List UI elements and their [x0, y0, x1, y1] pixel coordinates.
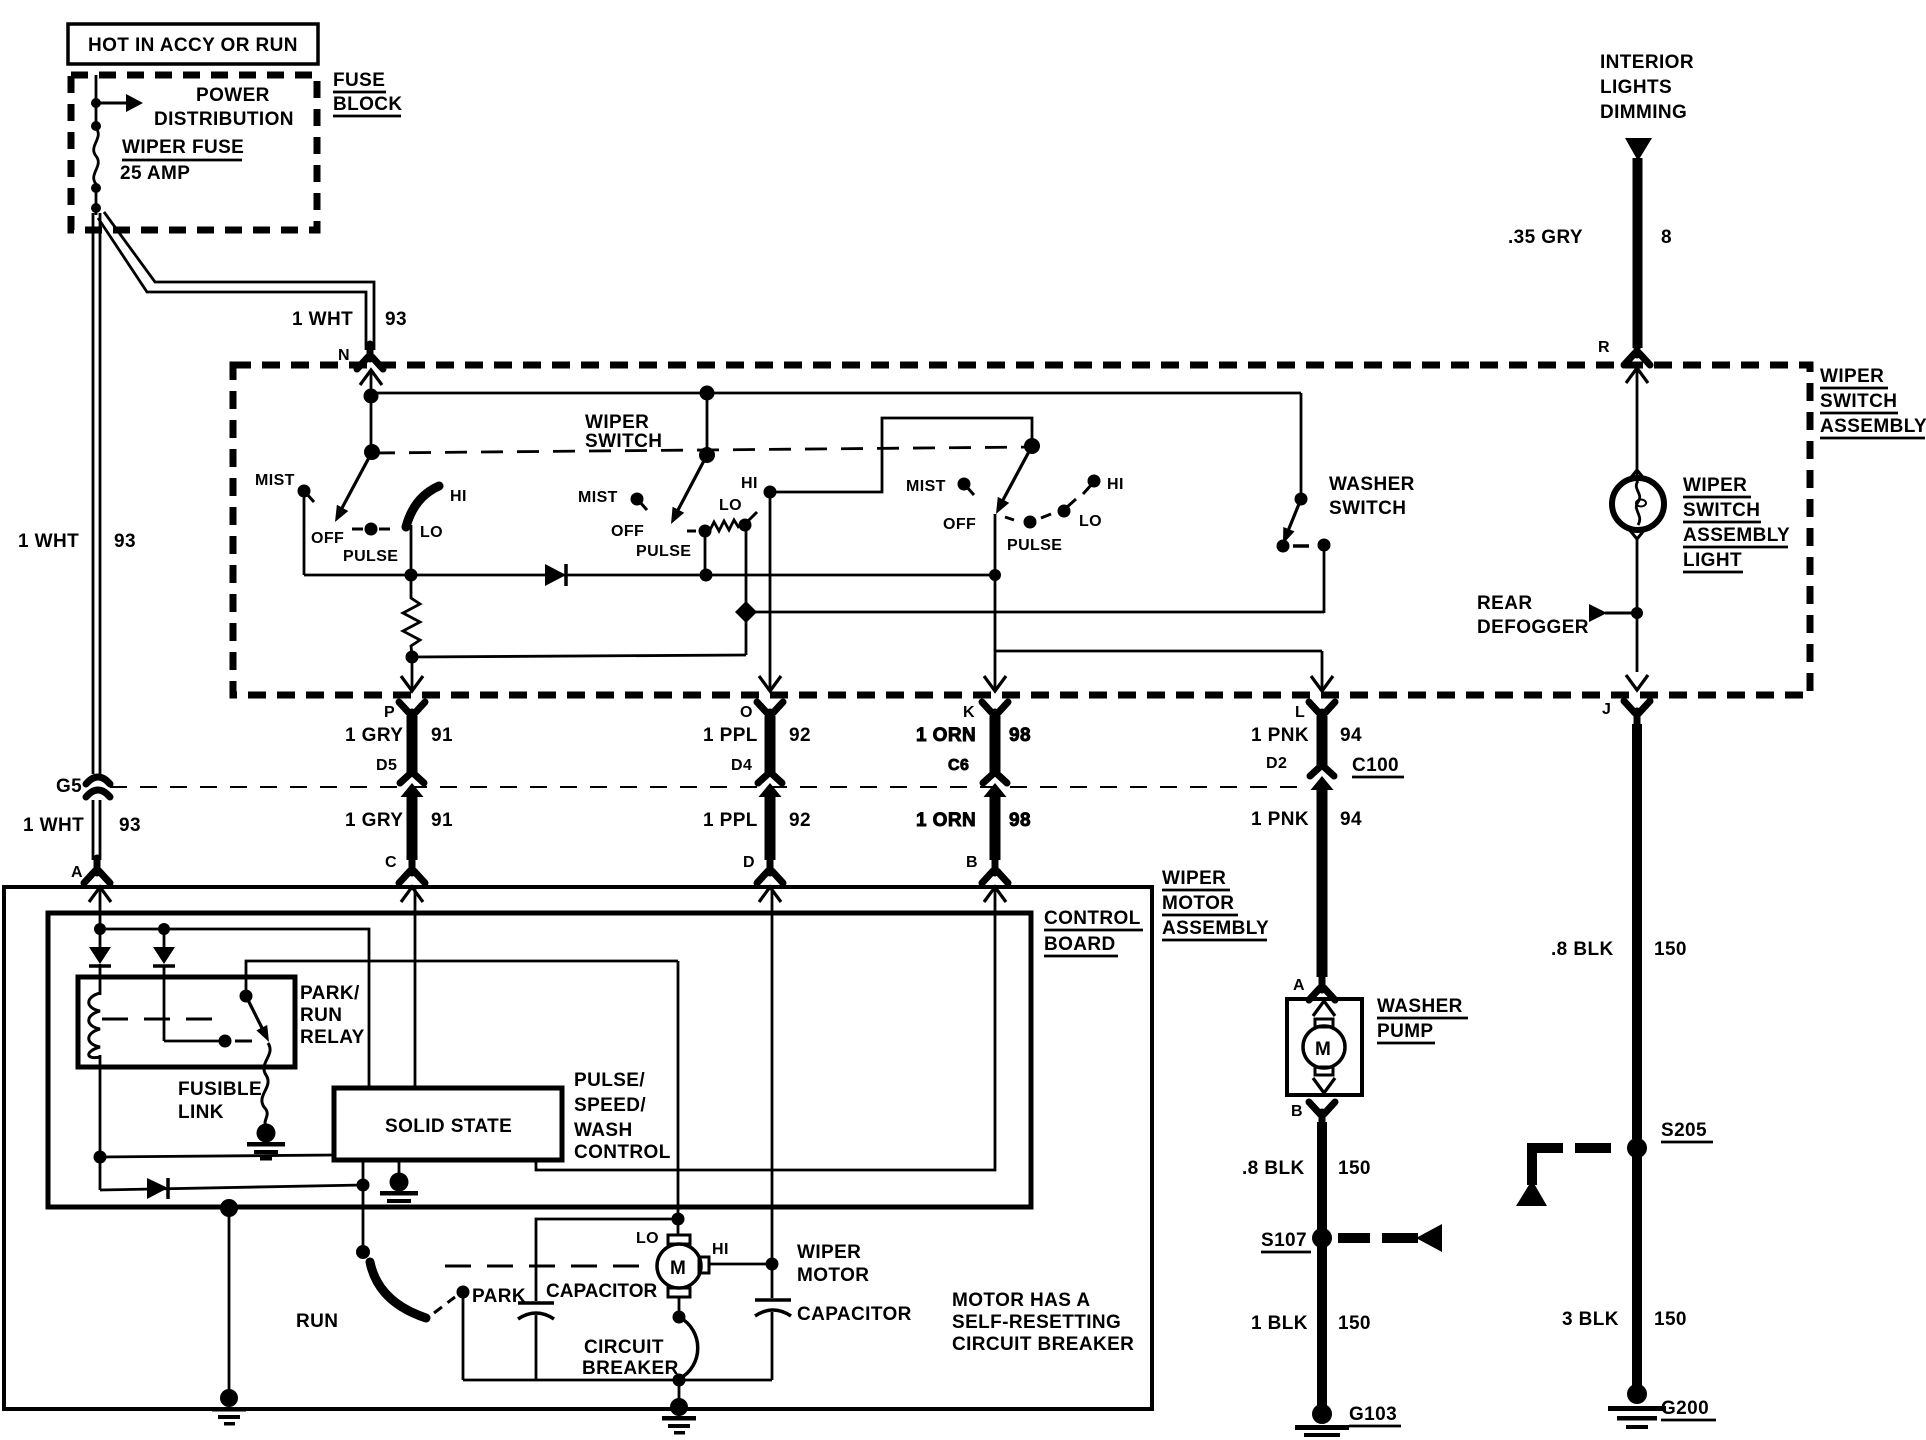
svg-text:RUN: RUN [296, 1311, 338, 1332]
mechanical dashed link park switch to motor [445, 1265, 655, 1268]
node A lower branch [94, 1151, 107, 1164]
label WIPER SWITCH ASSEMBLY (right) [1820, 366, 1926, 438]
node LO cap top join [672, 1213, 685, 1226]
wire label .8 BLK / 150 [1551, 939, 1687, 960]
wire 1 WHT 93 branch to N (double line: diagonal, horizontal, down to N) [98, 212, 374, 350]
wire label 1 PNK / 94 lower [1251, 809, 1362, 830]
contact tail LO 2 [747, 512, 757, 522]
svg-text:1 ORN: 1 ORN [916, 810, 976, 831]
label WIPER SWITCH ASSEMBLY LIGHT [1683, 475, 1790, 572]
open arrow up below N [360, 370, 382, 385]
svg-text:CAPACITOR: CAPACITOR [546, 1281, 657, 1302]
node [91, 203, 101, 213]
wire LO1 down to pulse net [410, 525, 413, 575]
contact tail MIST 3 [966, 486, 974, 495]
svg-text:93: 93 [114, 531, 136, 552]
node diamond junction [735, 601, 757, 623]
wire 1 PPL 92 lower (thick) [765, 794, 776, 860]
node [700, 569, 713, 582]
wire top bus inside switch box [371, 392, 1301, 395]
svg-text:WASHER: WASHER [1329, 474, 1415, 495]
wire A branch to relay contact riser [100, 929, 369, 1088]
fuse block dashed box [71, 75, 317, 230]
wire bus to washer switch (down) [1300, 393, 1303, 498]
svg-text:BREAKER: BREAKER [582, 1358, 679, 1379]
ground under solid state [380, 1173, 418, 1210]
svg-text:CIRCUIT BREAKER: CIRCUIT BREAKER [952, 1334, 1134, 1355]
open arrow up at A entry [89, 887, 111, 902]
wire label 1 PNK / 94 [1251, 725, 1362, 746]
svg-text:1 BLK: 1 BLK [1251, 1313, 1308, 1334]
diode CR2 (A to relay coil) [89, 947, 111, 966]
wire run switch riser [362, 1160, 365, 1252]
wire B into board, to solid state [536, 887, 995, 1170]
svg-text:INTERIOR: INTERIOR [1600, 52, 1694, 73]
node [91, 121, 101, 131]
node bottom return at motor [673, 1374, 686, 1387]
svg-text:1 GRY: 1 GRY [345, 725, 403, 746]
svg-text:25 AMP: 25 AMP [120, 163, 190, 184]
contact HI 3 [1088, 475, 1101, 488]
dash OFF3 to PULSE3 [1005, 517, 1014, 520]
wire 1 GRY 91 lower (thick) [407, 794, 418, 860]
svg-text:C6: C6 [948, 757, 969, 774]
chevron below lamp [1628, 528, 1646, 539]
wire 1 WHT 93 left trunk (double line down to A) [93, 213, 100, 860]
wire 1 ORN 98 lower (thick) [990, 794, 1001, 860]
svg-text:OFF: OFF [311, 530, 344, 547]
svg-text:PARK/: PARK/ [300, 983, 360, 1004]
wire label .8 BLK / 150 [1242, 1158, 1371, 1179]
label MOTOR HAS A SELF-RESETTING CIRCUIT BREAKER [952, 1290, 1134, 1355]
node motor ground brush [678, 1297, 681, 1317]
open arrow up inside pump box [1313, 1001, 1335, 1016]
svg-text:LO: LO [719, 497, 742, 514]
connector P [399, 702, 425, 727]
svg-text:150: 150 [1654, 939, 1687, 960]
wire motor ground drop [678, 1380, 681, 1407]
svg-text:A: A [71, 864, 83, 881]
wire feed stub inside fuse box [95, 75, 98, 128]
label G103 [1349, 1404, 1401, 1426]
ground motor (on box edge) [662, 1416, 696, 1435]
svg-text:M: M [670, 1258, 686, 1279]
wire R down to lamp [1636, 368, 1639, 477]
wire HI2 over to wafer 3 pivot [770, 418, 1032, 492]
node bus at switch 2 [700, 386, 715, 401]
label WASHER PUMP [1377, 996, 1468, 1043]
svg-text:G103: G103 [1349, 1404, 1397, 1425]
svg-text:PARK: PARK [472, 1286, 526, 1307]
ground under fusible link [247, 1124, 285, 1161]
wire to solid state left [100, 1155, 334, 1157]
arrow from interior lights (filled down triangle) [1625, 138, 1652, 161]
wire N down to bus [370, 370, 373, 396]
svg-text:SOLID STATE: SOLID STATE [385, 1116, 512, 1137]
wire label 1 PPL / 92 lower [703, 810, 811, 831]
node bus at N [364, 389, 379, 404]
svg-text:LIGHT: LIGHT [1683, 550, 1742, 571]
svg-text:DIMMING: DIMMING [1600, 102, 1687, 123]
label WIPER MOTOR ASSEMBLY [1162, 868, 1269, 940]
svg-text:SWITCH: SWITCH [1683, 500, 1760, 521]
wire K/L feed line [995, 650, 1322, 653]
label S107 [1261, 1230, 1311, 1252]
wire diode3 into relay [163, 966, 166, 1041]
connector C [399, 858, 425, 883]
connector D5 (in-line pair) [400, 772, 424, 797]
wire fuse to junction (double line) [95, 184, 98, 215]
svg-text:98: 98 [1009, 810, 1031, 831]
connector D [757, 858, 783, 883]
wire MIST1 down [303, 494, 306, 575]
svg-text:WIPER FUSE: WIPER FUSE [122, 137, 244, 158]
wire LO2 riser down to diamond junction [745, 528, 748, 655]
connector J [1624, 701, 1650, 726]
svg-text:J: J [1602, 701, 1611, 718]
svg-text:8: 8 [1661, 227, 1672, 248]
node motor HI / D [766, 1258, 779, 1271]
label FUSE BLOCK [333, 70, 403, 116]
svg-text:CONTROL: CONTROL [1044, 908, 1141, 929]
svg-text:150: 150 [1654, 1309, 1687, 1330]
node [405, 569, 418, 582]
svg-text:D4: D4 [731, 757, 752, 774]
wire label 1 ORN / 98 lower [916, 810, 1031, 831]
wire PARK contact down [462, 1292, 465, 1380]
node run pivot [356, 1245, 370, 1259]
solid state box [334, 1088, 562, 1160]
dash PULSE3 to LO3 [1041, 514, 1051, 518]
label S205 [1661, 1120, 1713, 1142]
node pivot 2 [699, 447, 715, 463]
wire 1 ORN 98 upper (thick) [990, 716, 1001, 772]
svg-text:94: 94 [1340, 809, 1362, 830]
connector L [1309, 702, 1335, 727]
contact tail MIST 2 [639, 501, 647, 510]
wire board ground drop [228, 1208, 231, 1396]
svg-text:LO: LO [636, 1230, 659, 1247]
svg-text:SWITCH: SWITCH [1820, 391, 1897, 412]
contact tail HI 3 [1083, 484, 1092, 494]
wire to relay common [164, 1040, 222, 1043]
wire label 1 WHT 93 (left trunk upper) [18, 531, 136, 552]
svg-text:C: C [385, 854, 397, 871]
svg-text:A: A [1293, 977, 1305, 994]
node board bottom edge ground tap [220, 1199, 238, 1217]
node run riser [357, 1179, 370, 1192]
wire A into relay coil [99, 964, 102, 995]
wire label .35 GRY / 8 [1508, 227, 1672, 248]
diode CR3 (to relay switch) [153, 947, 175, 966]
connector D4 (in-line pair) [758, 772, 782, 797]
contact PULSE 1 with side dashes [352, 523, 390, 536]
node on assembly box edge (left ground) [220, 1389, 238, 1407]
svg-text:92: 92 [789, 810, 811, 831]
wire motor HI to D riser [709, 1263, 772, 1266]
switch blade wafer 1 (points at OFF) [335, 452, 372, 522]
open arrow down at P [401, 676, 423, 691]
svg-text:L: L [1295, 704, 1305, 721]
svg-text:MIST: MIST [906, 478, 946, 495]
svg-text:93: 93 [119, 815, 141, 836]
wire label 1 PPL / 92 [703, 725, 811, 746]
svg-text:CONTROL: CONTROL [574, 1142, 671, 1163]
contact washer common [1277, 540, 1290, 553]
svg-text:.35 GRY: .35 GRY [1508, 227, 1583, 248]
resistor R2 (PULSE2 to LO2) [710, 520, 739, 531]
park/run relay box [78, 977, 295, 1067]
contact PULSE 2 [699, 525, 712, 538]
wire 1 GRY 91 upper (thick) [407, 716, 418, 772]
svg-text:HOT IN ACCY OR RUN: HOT IN ACCY OR RUN [88, 35, 298, 56]
wire resistor bottom to LO2 riser [412, 655, 746, 657]
branch from S107 (dashed thick to other circuit) [1338, 1224, 1442, 1252]
svg-text:WIPER: WIPER [797, 1242, 861, 1263]
node rear defogger tap [1631, 607, 1643, 619]
svg-text:S107: S107 [1261, 1230, 1307, 1251]
node on assembly box edge [670, 1398, 688, 1416]
svg-text:WASH: WASH [574, 1120, 633, 1141]
ground control board (on box edge) [212, 1407, 246, 1426]
wire diamond to washer switch common [746, 611, 1324, 614]
svg-text:.8 BLK: .8 BLK [1551, 939, 1614, 960]
wire label 1 WHT 93 (to N) [292, 309, 407, 330]
wire S107 to G103 (thick bar) [1317, 1246, 1327, 1408]
svg-text:N: N [338, 347, 350, 364]
wiper motor assembly outer box [4, 887, 1152, 1409]
wire label 1 WHT 93 (left trunk lower) [23, 815, 141, 836]
wire HI2 down to O [769, 494, 772, 689]
svg-text:94: 94 [1340, 725, 1362, 746]
label WIPER MOTOR [797, 1242, 869, 1286]
wire lamp down to J [1636, 537, 1639, 672]
svg-text:MOTOR: MOTOR [797, 1265, 869, 1286]
label PARK/ RUN RELAY [300, 983, 365, 1048]
contact MIST 3 [958, 478, 971, 491]
svg-text:B: B [966, 854, 978, 871]
wire 1 PNK 94 upper (thick) [1317, 716, 1328, 766]
node diode2 top [158, 923, 170, 935]
svg-text:WIPER: WIPER [1683, 475, 1747, 496]
wire bottom return [463, 1379, 772, 1382]
svg-text:91: 91 [431, 810, 453, 831]
connector C100 dashed line [110, 786, 1310, 788]
ground G103 [1295, 1404, 1349, 1437]
open arrow down at J [1626, 675, 1648, 690]
label PULSE/ SPEED/ WASH CONTROL [574, 1070, 671, 1163]
node resistor bottom [406, 651, 419, 664]
svg-text:HI: HI [450, 488, 467, 505]
svg-text:HI: HI [1107, 476, 1124, 493]
svg-text:MOTOR: MOTOR [1162, 893, 1234, 914]
label POWER DISTRIBUTION [154, 85, 294, 130]
svg-text:WIPER: WIPER [1162, 868, 1226, 889]
wiper switch assembly dashed box [233, 365, 1810, 695]
svg-text:MIST: MIST [578, 489, 618, 506]
contact HI 2 [764, 486, 777, 499]
svg-text:BOARD: BOARD [1044, 934, 1116, 955]
relay armature dashed link [102, 1018, 222, 1021]
svg-text:PULSE: PULSE [343, 548, 398, 565]
diode CR (pulse net) [545, 564, 566, 586]
dash left of PULSE 2 [687, 530, 696, 533]
open arrow down at L [1311, 676, 1333, 691]
node relay NO contact [240, 990, 253, 1003]
svg-text:1 PNK: 1 PNK [1251, 725, 1309, 746]
wire diode2 down [163, 929, 166, 947]
diode CR4 [147, 1178, 168, 1199]
node [91, 183, 101, 193]
wire 1 PNK 94 lower (thick) [1317, 787, 1328, 977]
svg-text:WIPER: WIPER [1820, 366, 1884, 387]
svg-text:ASSEMBLY: ASSEMBLY [1820, 416, 1926, 437]
dash relay common to blade [235, 1040, 252, 1043]
washer switch blade [1283, 499, 1301, 544]
node power tap [91, 98, 101, 108]
capacitor C2 (HI) [755, 1300, 791, 1380]
wire S205 to G200 (thick bar) [1632, 1156, 1642, 1388]
svg-text:PULSE/: PULSE/ [574, 1070, 645, 1091]
wire label 1 GRY / 91 [345, 725, 453, 746]
svg-text:150: 150 [1338, 1313, 1371, 1334]
svg-text:ASSEMBLY: ASSEMBLY [1162, 918, 1269, 939]
label C100 [1352, 755, 1404, 777]
mechanical link dashed line through wafers [373, 447, 1032, 453]
label WIPER FUSE 25 AMP [120, 137, 244, 184]
ground stub under solid state [398, 1160, 401, 1176]
svg-text:98: 98 [1009, 725, 1031, 746]
label G200 [1661, 1398, 1716, 1420]
svg-text:FUSIBLE: FUSIBLE [178, 1079, 262, 1100]
connector G5 (in-line) [86, 777, 110, 797]
relay coil [89, 993, 100, 1058]
fuse WIPER FUSE 25A (wavy element) [94, 128, 99, 184]
svg-text:SPEED/: SPEED/ [574, 1095, 646, 1116]
svg-text:BLOCK: BLOCK [333, 94, 403, 115]
wiper motor M [657, 1235, 709, 1297]
svg-text:1 WHT: 1 WHT [18, 531, 79, 552]
label CONTROL BOARD [1044, 908, 1143, 956]
svg-text:P: P [384, 704, 395, 721]
connector B (pump) [1309, 1102, 1335, 1127]
svg-text:WIPER: WIPER [585, 412, 649, 433]
node pivot 3 [1024, 438, 1040, 454]
contact tail MIST 1 [306, 493, 314, 502]
box HOT IN ACCY OR RUN [68, 24, 318, 64]
label WIPER SWITCH [585, 412, 662, 452]
svg-text:PULSE: PULSE [1007, 537, 1062, 554]
wire label 1 GRY / 91 lower [345, 810, 453, 831]
svg-text:LO: LO [1079, 513, 1102, 530]
wire OFF3 drop to K/L feed [994, 514, 997, 651]
connector A (into control board) [84, 858, 110, 883]
svg-text:SWITCH: SWITCH [1329, 498, 1406, 519]
svg-text:HI: HI [741, 475, 758, 492]
contact washer feed [1295, 493, 1308, 506]
circuit breaker arc [679, 1317, 698, 1379]
svg-text:POWER: POWER [196, 85, 270, 106]
open arrow down at K [984, 676, 1006, 691]
svg-text:1 PNK: 1 PNK [1251, 809, 1309, 830]
svg-text:3 BLK: 3 BLK [1562, 1309, 1619, 1330]
svg-text:HI: HI [712, 1241, 729, 1258]
svg-text:DEFOGGER: DEFOGGER [1477, 617, 1589, 638]
svg-text:RELAY: RELAY [300, 1027, 365, 1048]
svg-text:OFF: OFF [943, 516, 976, 533]
splice S107 [1312, 1228, 1332, 1248]
svg-text:LO: LO [420, 524, 443, 541]
connector O [757, 702, 783, 727]
washer pump motor M [1303, 1019, 1345, 1075]
wire LO riser (to motor LO) [677, 961, 680, 1235]
wire A lower branch [99, 1055, 102, 1190]
svg-text:LINK: LINK [178, 1102, 224, 1123]
wire LO capacitor branch [536, 1219, 678, 1301]
label REAR DEFOGGER [1477, 593, 1589, 638]
svg-text:1 WHT: 1 WHT [292, 309, 353, 330]
contact PULSE 3 [1024, 516, 1037, 529]
svg-text:PUMP: PUMP [1377, 1021, 1434, 1042]
resistor R1 (pulse to P) [403, 575, 420, 656]
wire label 1 BLK / 150 [1251, 1313, 1371, 1334]
svg-text:REAR: REAR [1477, 593, 1532, 614]
connector K [982, 702, 1008, 727]
contact tail LO 3 [1066, 499, 1076, 508]
open arrow down at O [759, 676, 781, 691]
open arrow up at C entry [401, 887, 423, 902]
switch blade wafer 3 [996, 446, 1032, 514]
svg-text:1 PPL: 1 PPL [703, 810, 758, 831]
svg-text:G5: G5 [56, 776, 82, 797]
contact arc LO-HI wafer 1 [406, 486, 439, 527]
connector R [1624, 340, 1650, 365]
node A branch [94, 923, 106, 935]
svg-text:D2: D2 [1266, 755, 1287, 772]
svg-text:93: 93 [385, 309, 407, 330]
ground G200 [1608, 1384, 1666, 1429]
chevron above lamp [1628, 470, 1646, 481]
dash blade to PARK contact [434, 1297, 455, 1313]
svg-text:O: O [740, 704, 753, 721]
wire down to L [1321, 651, 1324, 689]
wire washer output down to diamond line [1323, 545, 1326, 613]
svg-text:CIRCUIT: CIRCUIT [584, 1337, 664, 1358]
svg-text:ASSEMBLY: ASSEMBLY [1683, 525, 1790, 546]
svg-text:D5: D5 [376, 757, 397, 774]
connector D2 (in-line pair) [1310, 765, 1334, 790]
svg-text:DISTRIBUTION: DISTRIBUTION [154, 109, 294, 130]
wire with diode to run switch riser [100, 1185, 363, 1190]
connector B [982, 858, 1008, 883]
wire down to P [411, 657, 414, 689]
contact LO 3 [1058, 505, 1071, 518]
relay blade [246, 996, 269, 1042]
wire label 1 ORN / 98 [916, 725, 1031, 746]
svg-text:1 PPL: 1 PPL [703, 725, 758, 746]
svg-text:1 ORN: 1 ORN [916, 725, 976, 746]
arrow from rear defogger [1589, 604, 1637, 622]
svg-text:S205: S205 [1661, 1120, 1707, 1141]
fusible link (wavy) from blade pivot down [262, 1043, 270, 1126]
svg-text:LIGHTS: LIGHTS [1600, 77, 1672, 98]
branch from S205 (dashed thick to other circuit) [1516, 1143, 1611, 1206]
wire PULSE2 down to pulse net [704, 531, 707, 575]
open arrow down inside pump box [1313, 1078, 1335, 1093]
svg-text:CAPACITOR: CAPACITOR [797, 1304, 912, 1325]
splice S205 [1627, 1138, 1647, 1158]
node washer output [1318, 539, 1331, 552]
